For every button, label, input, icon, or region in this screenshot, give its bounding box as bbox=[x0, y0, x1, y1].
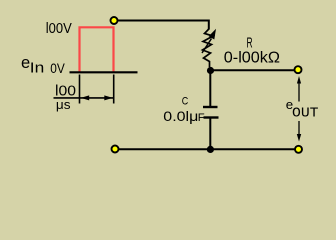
svg-text:0V: 0V bbox=[50, 61, 65, 77]
resistor R (variable, sketchy zigzag) bbox=[203, 29, 214, 67]
capacitor C top plate bbox=[203, 106, 218, 108]
wire top: terminal to resistor bbox=[118, 21, 209, 30]
terminal output top (yellow) bbox=[295, 66, 302, 73]
terminal input top (yellow) bbox=[111, 17, 118, 24]
pulse waveform (red square pulse) bbox=[80, 27, 114, 72]
dimension tick left bbox=[79, 75, 81, 104]
svg-text:0-l00kΩ: 0-l00kΩ bbox=[224, 50, 280, 67]
wire junction to output terminal bbox=[210, 69, 294, 71]
svg-text:C: C bbox=[182, 95, 189, 107]
svg-text:OUT: OUT bbox=[292, 106, 319, 122]
dimension line with arrows (also fraction bar of 100/us) bbox=[54, 97, 114, 99]
junction bottom bbox=[207, 146, 214, 153]
resistor wiper arrow bbox=[202, 39, 212, 54]
terminal input bottom (yellow) bbox=[112, 146, 119, 153]
terminal output bottom (yellow) bbox=[295, 146, 302, 153]
svg-text:In: In bbox=[30, 60, 45, 77]
wire 0V baseline bbox=[70, 71, 138, 73]
dimension tick right bbox=[113, 75, 115, 104]
wire bottom rail bbox=[119, 148, 295, 150]
junction resistor/cap/output bbox=[207, 67, 214, 74]
eOUT dimension arrow up bbox=[297, 76, 301, 84]
svg-text:e: e bbox=[21, 54, 30, 72]
svg-text:F: F bbox=[198, 112, 205, 124]
wire junction to capacitor bbox=[209, 74, 211, 107]
svg-text:l00V: l00V bbox=[46, 21, 72, 37]
capacitor C bottom plate bbox=[204, 116, 219, 118]
wire capacitor to bottom bbox=[209, 119, 211, 150]
svg-text:0.0lμ: 0.0lμ bbox=[163, 108, 198, 124]
svg-text:μs: μs bbox=[56, 97, 71, 112]
eOUT dimension arrow down bbox=[298, 121, 300, 135]
